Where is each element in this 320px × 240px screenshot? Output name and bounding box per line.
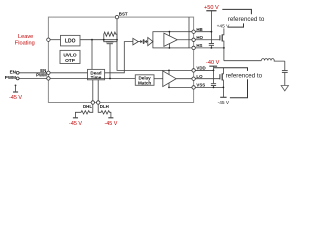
wire DLH drop (97, 80, 99, 103)
wire HS (189, 47, 224, 49)
svg-text:-45 V: -45 V (104, 121, 117, 127)
pin VSS (192, 86, 195, 89)
svg-text:+50 V: +50 V (204, 5, 219, 11)
svg-text:BST: BST (119, 11, 128, 16)
svg-text:Time: Time (91, 75, 102, 80)
pin HB (192, 30, 195, 33)
wire switch node to inductor (224, 60, 262, 62)
pin DLH (97, 101, 100, 104)
capacitor bootstrap (209, 44, 214, 48)
wire BST rail drop to driver (188, 17, 190, 32)
wire EN input (19, 72, 48, 74)
node LDO output junction (91, 39, 93, 41)
transistor high-side FET (220, 28, 224, 60)
resistor DLH (98, 104, 111, 117)
svg-text:LO: LO (196, 74, 203, 79)
svg-text:Floating: Floating (15, 41, 35, 47)
leader from +50V (222, 9, 251, 14)
wire DHL drop (92, 80, 94, 103)
wire HO (177, 39, 220, 41)
svg-text:Match: Match (138, 80, 151, 85)
capacitive level shifter (138, 39, 148, 44)
leader to -45V (230, 79, 248, 98)
capacitor VDD-VSS bypass (211, 70, 216, 87)
op-amp low-side driver (163, 71, 176, 87)
buffer level-shift input (133, 38, 138, 45)
wire VDD (194, 69, 214, 71)
wire EN inside (48, 72, 87, 74)
capacitor output (282, 61, 288, 85)
pin LO (192, 77, 195, 80)
block LDO (61, 35, 81, 46)
svg-text:VDD: VDD (196, 66, 205, 71)
buffer level-shift output (148, 38, 153, 46)
node LS driver bottom (168, 87, 170, 89)
ground output (281, 86, 288, 91)
svg-text:+45 V: +45 V (217, 24, 230, 30)
svg-text:referenced to: referenced to (226, 73, 263, 80)
wire HB (189, 31, 211, 33)
wire +50V rail / bootstrap cap rail (210, 11, 212, 44)
node VDD rail (213, 70, 215, 72)
node HB rail (211, 31, 213, 33)
inductor output (261, 59, 284, 62)
ground bar DHL (73, 117, 78, 119)
node VSS source (223, 87, 225, 89)
ground reference symbol for inputs (13, 85, 18, 93)
transistor low-side FET (220, 68, 224, 98)
leader from -40V (214, 68, 248, 71)
pin PWM (47, 77, 50, 80)
svg-text:LDO: LDO (65, 38, 76, 44)
wire -40V to VDD (213, 66, 215, 70)
wire LS driver bottom tap (168, 83, 170, 87)
resistor bootstrap (104, 32, 117, 40)
IC outline box (48, 17, 193, 102)
node VSS rail (213, 87, 215, 89)
node HS rail (211, 47, 213, 49)
pin DHL (91, 101, 94, 104)
wire HS driver top tap (168, 32, 170, 36)
node HS switch (223, 47, 225, 49)
wire BST down and across to VDD (117, 19, 214, 71)
high-side driver stage box (153, 32, 189, 48)
pin Leave Floating (47, 38, 50, 41)
wire LS driver top tap (168, 70, 170, 74)
resistor DHL (75, 104, 92, 117)
ground bar DLH (108, 117, 113, 119)
supply bar +50V (206, 10, 216, 12)
svg-text:-40 V: -40 V (206, 60, 220, 66)
node bootstrap gate tap (109, 78, 111, 80)
wire VSS (169, 86, 223, 88)
wire Delay Match to LS driver (154, 78, 163, 80)
block Delay Match (135, 75, 154, 86)
wire LDO output down to Dead Time (91, 40, 93, 70)
node HS driver bottom (169, 47, 171, 49)
block UVLO OTP (60, 50, 80, 64)
svg-text:HS: HS (196, 43, 202, 48)
pin HO (192, 38, 195, 41)
pin HS (192, 46, 195, 49)
terminal EN source (16, 71, 19, 74)
node bootstrap left (103, 39, 105, 41)
wire LDO output to bootstrap (80, 39, 117, 41)
svg-text:referenced to: referenced to (228, 16, 265, 23)
op-amp high-side driver (164, 33, 177, 46)
svg-text:DHL: DHL (83, 104, 92, 109)
svg-text:HB: HB (196, 27, 202, 32)
node HS driver top (169, 31, 171, 33)
transistor bootstrap switch (104, 40, 117, 79)
svg-text:EN: EN (10, 69, 17, 74)
wire PWM inside to Delay Match (48, 78, 135, 80)
pin VDD (192, 69, 195, 72)
wire LO (176, 78, 220, 80)
wire PWM input (19, 77, 48, 79)
svg-text:PWM: PWM (36, 73, 47, 78)
pin EN (47, 71, 50, 74)
svg-text:PWM: PWM (5, 75, 16, 80)
supply bar -40V (209, 65, 217, 67)
block Dead Time (88, 69, 105, 80)
svg-text:DLH: DLH (100, 104, 109, 109)
pin BST (115, 15, 118, 18)
svg-text:HO: HO (196, 35, 203, 40)
wire HS driver bottom tap (168, 44, 170, 48)
leader from +45V (228, 23, 244, 27)
wire Leave-Floating pin to LDO (48, 39, 60, 41)
svg-text:OTP: OTP (65, 58, 76, 64)
svg-text:VSS: VSS (196, 83, 205, 88)
node LS driver top (168, 70, 170, 72)
node bootstrap right (116, 39, 118, 41)
svg-text:UVLO: UVLO (63, 52, 77, 58)
wire Dead Time HS output up to level shifter (105, 42, 133, 73)
svg-text:-45 V: -45 V (9, 95, 22, 101)
supply bar -45V (VSS) (220, 96, 226, 98)
terminal PWM source (16, 77, 19, 80)
svg-text:-45 V: -45 V (69, 121, 82, 127)
svg-text:-45 V: -45 V (218, 100, 230, 106)
svg-text:Leave: Leave (18, 34, 33, 40)
